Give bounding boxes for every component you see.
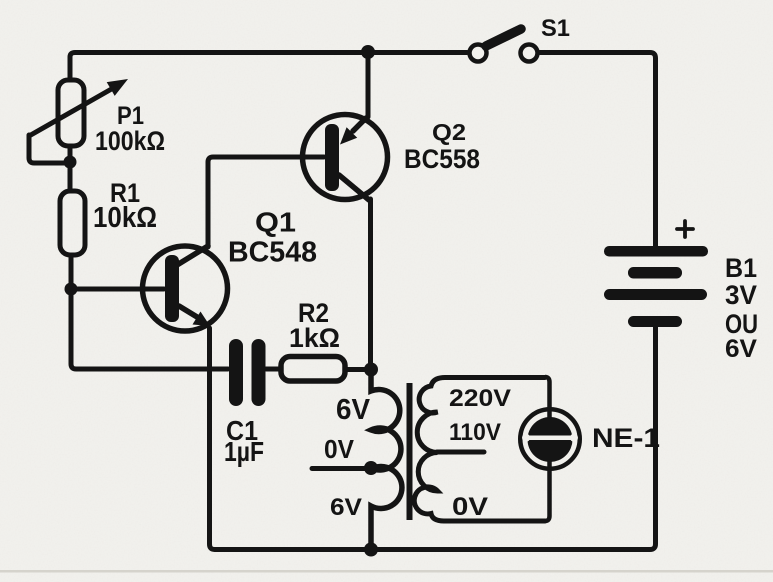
transformer T1 primary winding — [371, 376, 402, 549]
svg-text:1kΩ: 1kΩ — [289, 323, 340, 353]
svg-text:6V: 6V — [336, 394, 371, 426]
svg-text:BC558: BC558 — [404, 144, 480, 174]
node: P1 wiper junction — [64, 156, 77, 169]
svg-text:Q2: Q2 — [432, 119, 466, 145]
transistor Q2 base bar — [325, 124, 339, 191]
wire Q2 emitter up to top rail — [366, 53, 371, 117]
wire C1 right plate to R2 — [266, 367, 280, 372]
svg-text:110V: 110V — [449, 419, 501, 446]
resistor R1 — [60, 191, 85, 255]
node: top rail / Q2 emitter — [361, 45, 375, 59]
svg-text:NE-1: NE-1 — [592, 423, 660, 453]
svg-text:6V: 6V — [330, 494, 362, 521]
svg-text:B1: B1 — [725, 253, 757, 283]
transistor Q1 circle — [143, 246, 228, 331]
transistor Q2 circle — [303, 115, 388, 200]
svg-text:Q1: Q1 — [255, 207, 296, 238]
svg-text:220V: 220V — [449, 385, 511, 412]
wire Q1 collector up and right to Q2 base — [208, 157, 324, 247]
svg-text:3V: 3V — [725, 280, 757, 310]
svg-text:6V: 6V — [725, 335, 757, 363]
svg-text:0V: 0V — [452, 493, 488, 521]
wire P1 wiper to bottom node — [29, 135, 66, 163]
svg-text:0V: 0V — [324, 434, 355, 464]
wire R2 right to node — [347, 367, 369, 372]
wire Q2 collector down to R2/transformer node — [368, 199, 373, 368]
potentiometer P1 arrow — [29, 79, 128, 136]
wire top rail right (S1 to battery +, right rail down) — [540, 53, 656, 248]
switch S1 — [470, 29, 538, 62]
battery plus sign — [677, 221, 693, 237]
wire left rail P1 bottom to R1 top — [68, 148, 73, 189]
node: R2 / Q2 collector / transformer primary junction — [364, 363, 378, 377]
node: primary / bottom rail junction — [364, 543, 378, 557]
wire secondary to neon lamp (right side vertical) — [545, 377, 550, 521]
svg-text:100kΩ: 100kΩ — [95, 126, 165, 156]
transistor Q1 emitter lead with arrow — [179, 306, 210, 326]
wire transformer secondary 110V tap — [437, 450, 484, 455]
resistor R2 — [281, 357, 345, 382]
wire battery minus down, bottom rail, left vertical to Q1 emitter — [210, 327, 656, 550]
transistor Q2 emitter lead with arrow (PNP) — [340, 118, 366, 145]
capacitor C1 plates — [229, 339, 266, 406]
paper scan streak at bottom — [0, 570, 773, 573]
svg-text:BC548: BC548 — [228, 237, 317, 269]
transistor Q1 base bar — [165, 255, 179, 322]
transformer T1 core — [407, 383, 413, 520]
wire top rail left (P1 top to S1) — [70, 53, 467, 81]
svg-text:1µF: 1µF — [224, 436, 264, 467]
potentiometer P1 body — [58, 80, 84, 146]
node: transformer primary center tap — [364, 461, 378, 475]
wire left rail R1 bottom through node down and right to C1 — [71, 257, 228, 369]
battery B1 plates — [604, 246, 708, 327]
node: Q1 base / R1 / C1 junction — [65, 283, 78, 296]
transistor Q2 collector lead — [339, 175, 369, 200]
svg-text:S1: S1 — [541, 15, 570, 42]
neon lamp NE-1 — [520, 409, 580, 469]
wire transformer primary center tap — [312, 466, 369, 471]
transistor Q1 collector lead — [177, 246, 208, 265]
transformer T1 secondary winding — [414, 378, 545, 522]
svg-text:10kΩ: 10kΩ — [93, 202, 157, 234]
wire Q1 base — [71, 287, 164, 292]
